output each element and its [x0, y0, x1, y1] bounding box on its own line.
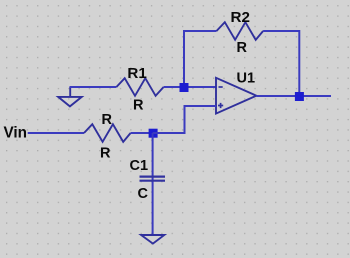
- resistor R: [84, 124, 131, 142]
- svg-text:R2: R2: [231, 9, 250, 26]
- wire: top feedback row left lead to R2: [183, 30, 217, 32]
- node: inverting input junction: [180, 83, 189, 92]
- svg-text:C: C: [138, 186, 149, 202]
- node: R / C1 / op-amp + junction: [149, 129, 158, 138]
- label R2 name: [231, 9, 250, 26]
- wire: Vin to R: [28, 132, 84, 134]
- label Vin: [4, 125, 28, 142]
- resistor R2: [217, 22, 264, 40]
- wire: R1 to inverting node: [164, 86, 216, 88]
- label R2 value R: [237, 40, 248, 56]
- wire: node down through C1 to ground: [152, 133, 154, 235]
- wire: top feedback row R2 to right vertical: [263, 30, 299, 32]
- capacitor C1: [140, 177, 166, 181]
- wire: right vertical down to output node: [298, 30, 300, 96]
- wire: R to input node: [131, 132, 153, 134]
- svg-text:Vin: Vin: [4, 125, 28, 142]
- wire: left vertical from inverting node up to feedback row: [183, 31, 185, 87]
- svg-text:R: R: [100, 146, 111, 162]
- label C1 name: [130, 158, 149, 174]
- label R name: [102, 112, 113, 128]
- svg-text:U1: U1: [237, 71, 256, 87]
- wire: op-amp output to right edge: [256, 95, 331, 97]
- svg-text:C1: C1: [130, 158, 149, 174]
- wire: ground to R1: [70, 86, 117, 88]
- resistor R1: [116, 78, 163, 96]
- node: output junction: [295, 92, 304, 101]
- label R1 name: [127, 65, 147, 82]
- op-amp U1: [216, 78, 256, 114]
- svg-text:R: R: [237, 40, 248, 56]
- wire: node to non-inverting corner: [153, 106, 216, 133]
- ground (bottom, below C1): [141, 235, 164, 244]
- svg-text:R1: R1: [127, 65, 147, 82]
- label C1 value C: [138, 186, 149, 202]
- label U1: [237, 71, 256, 87]
- ground (left, at R1 input): [58, 87, 81, 106]
- svg-text:R: R: [133, 98, 144, 114]
- label R1 value R: [133, 98, 144, 114]
- svg-text:R: R: [102, 112, 113, 128]
- label R value: [100, 146, 111, 162]
